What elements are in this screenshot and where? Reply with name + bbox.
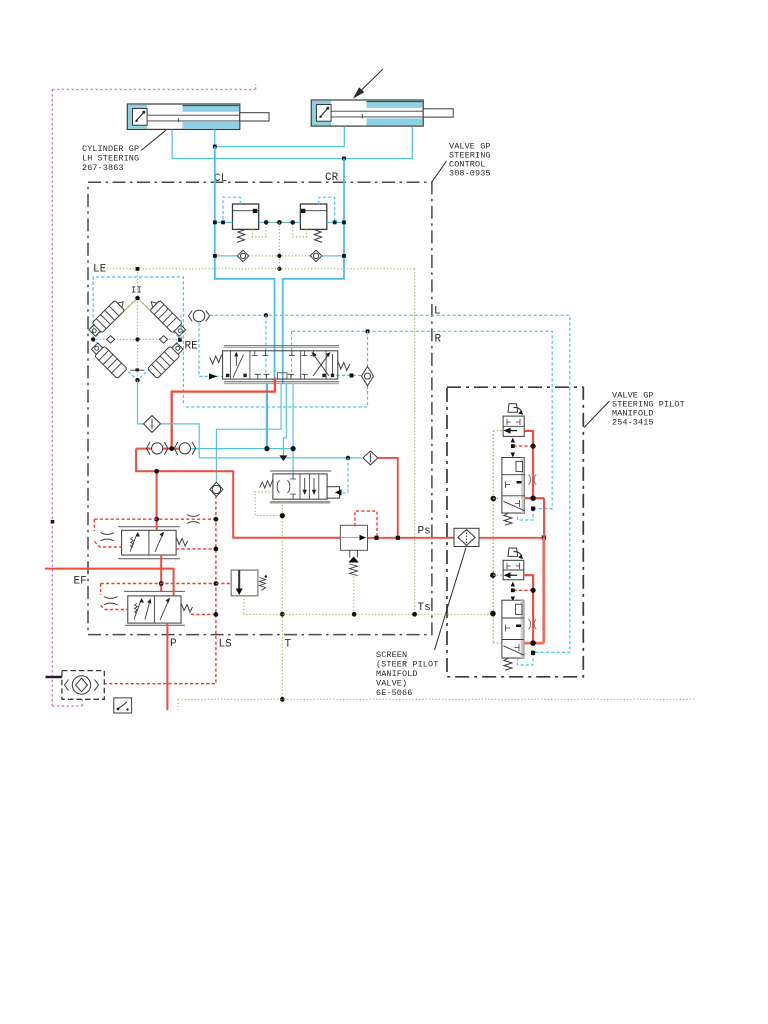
wire green Ts trunk — [243, 613, 493, 615]
wire green stub to upper solenoid — [493, 430, 503, 432]
wire green diagonals to top node — [115, 298, 160, 320]
wire cyan from cluster bottom to trunk2 — [138, 380, 200, 458]
svg-text:254-3415: 254-3415 — [612, 418, 654, 428]
op main control valve spool — [223, 346, 339, 384]
wire cyan dashed R to upper block bottom — [518, 509, 534, 520]
check valve mini diamond left on green — [107, 336, 115, 343]
node junction dot on magenta line — [51, 520, 55, 524]
op pilot supply solenoid valve — [340, 525, 367, 575]
node cluster junction dots — [91, 267, 182, 382]
cylinder LH steering (left) — [127, 104, 269, 129]
spring below lower block — [504, 658, 512, 670]
wire red dashed EF lower spring side — [191, 613, 216, 615]
solenoid valve upper-right of cluster — [146, 297, 187, 338]
wire red Ps feed elbow — [378, 458, 398, 538]
box VALVE GP STEERING PILOT MANIFOLD dash-dot border — [447, 387, 583, 677]
wire relief row cyan segments — [215, 221, 344, 223]
svg-text:LE: LE — [93, 264, 107, 276]
svg-text:SCREEN: SCREEN — [376, 650, 407, 660]
wire magenta pilot drain dashed left border — [52, 84, 255, 706]
svg-text:(STEER PILOT: (STEER PILOT — [376, 660, 438, 670]
node red out junction lower — [530, 640, 536, 646]
wire red main supply from valve bottom — [172, 378, 275, 449]
spring below upper block — [504, 513, 512, 525]
svg-text:Ps: Ps — [418, 526, 431, 538]
wire dashed arrows upper link — [511, 438, 515, 458]
wire red dashed upper link — [514, 445, 534, 447]
wire dashed cyan cluster diamond — [93, 298, 181, 380]
svg-text:CL: CL — [214, 173, 227, 185]
wire trunk1 red left section with circle checks — [191, 448, 294, 450]
wire red dashed EF lower pilot — [101, 584, 216, 610]
node green junction upper — [491, 496, 497, 502]
valve shuttle resolver circle L — [189, 310, 210, 322]
check valve diamond on Ps feed — [363, 451, 378, 465]
wire green pilot manifold vertical — [492, 431, 494, 643]
wire green vertical right drop to Ts — [414, 269, 416, 615]
pump priority valve bottom left — [46, 671, 105, 700]
wire trunk2 cyan to check to Ps — [199, 457, 362, 459]
wire dashed stub valve right pilot port to check — [336, 374, 361, 376]
wire CR trunk down to main valve — [283, 159, 344, 384]
wire green stub upper block — [493, 498, 502, 500]
solenoid valve lower-right of cluster — [134, 335, 185, 386]
check valve diamond on cluster drain — [144, 416, 161, 433]
filter screen on Ps — [454, 528, 479, 546]
wire green T trunk vertical — [281, 502, 283, 700]
wire green from damping valve to Ts — [243, 596, 245, 615]
svg-text:RE: RE — [185, 341, 199, 353]
op EF bypass valve lower — [124, 591, 185, 625]
node square on valve right stub — [350, 374, 354, 378]
wire red dashed lower link — [514, 589, 534, 591]
arrow on left pilot port — [209, 373, 218, 379]
svg-text:CYLINDER GP: CYLINDER GP — [82, 144, 139, 154]
wire green cluster horizontal — [93, 338, 181, 340]
wire L pilot drop to valve end — [265, 315, 267, 377]
node square L link — [531, 651, 535, 655]
node Ps junction squares — [374, 536, 546, 540]
wire green trunk LE horizontal — [93, 268, 414, 270]
box VALVE GP STEERING CONTROL dash-dot border — [88, 182, 432, 634]
label SCREEN (STEER PILOT MANIFOLD VALVE) 6E-5066 with leader — [376, 548, 466, 699]
svg-text:LH STEERING: LH STEERING — [82, 154, 139, 164]
label VALVE GP STEERING PILOT MANIFOLD 254-3415 with leader — [584, 391, 685, 428]
node red junction dots EF — [154, 469, 163, 586]
wire cyan dashed from reducing valve pilot to trunk2 — [342, 458, 348, 493]
spring right of main valve — [338, 361, 350, 371]
switch box symbol bottom — [114, 698, 132, 713]
wire RE dashed riser to shuttle — [180, 315, 182, 339]
svg-text:Ts: Ts — [418, 602, 431, 614]
wire green reducing valve drain L — [255, 492, 282, 516]
node red junction upper — [531, 444, 536, 449]
svg-text:6E-5066: 6E-5066 — [376, 688, 412, 698]
leader arrow to right cylinder — [354, 69, 383, 97]
node green junction lower block — [490, 611, 496, 617]
svg-text:MANIFOLD: MANIFOLD — [376, 669, 418, 679]
check valve diamond left on makeup row — [237, 250, 249, 261]
wire red lower block out elbow from riser — [524, 537, 544, 643]
box dashed cyan around pilot cluster — [93, 277, 183, 406]
check valve diamond on R riser — [362, 367, 374, 386]
wire red dashed EF upper spring side — [176, 548, 216, 550]
svg-text:T: T — [285, 639, 292, 651]
orifice to EF upper valve left — [101, 533, 115, 542]
wire thick cyan CL below valve to trunk — [266, 384, 268, 449]
wire red upper solenoid to riser — [524, 431, 533, 498]
node L line junction — [264, 313, 268, 317]
op pressure reducing valve — [260, 471, 342, 504]
svg-text:VALVE): VALVE) — [376, 679, 407, 689]
wire green solenoid drain to Ts — [353, 577, 355, 615]
wire red P line from valve to bottom — [166, 623, 168, 710]
node square R link — [531, 507, 535, 511]
pilot manifold lower proportional valve — [503, 548, 524, 580]
orifice to EF lower valve left — [104, 597, 118, 606]
spring left of main valve — [210, 355, 222, 365]
svg-text:308-0935: 308-0935 — [449, 169, 491, 179]
label VALVE GP STEERING CONTROL 308-0935 with leader — [432, 142, 491, 183]
wire green stub lower block — [493, 642, 502, 644]
wire cyan dashed L to lower block bottom — [518, 653, 534, 665]
wire makeup check row — [215, 255, 344, 257]
valve relief/makeup right CR — [300, 204, 326, 242]
wire red EF inlet line — [45, 569, 174, 596]
node green junctions — [280, 513, 285, 702]
wire red upper block out — [525, 498, 545, 537]
op LS damping valve — [231, 570, 267, 596]
node squares check row — [213, 254, 346, 271]
pilot manifold upper proportional valve — [503, 404, 524, 437]
solenoid valve upper-left of cluster — [87, 297, 128, 338]
wire red dashed into damping valve — [216, 583, 232, 585]
wire cyan valve port jog to trunk2 — [283, 384, 286, 458]
wire pilot dashed cyan to left relief — [223, 197, 240, 222]
spring right of EF lower valve — [181, 603, 193, 612]
wire red Ps line through screen — [368, 537, 544, 539]
wire pilot dashed cyan to right relief — [319, 197, 335, 222]
wire green loops under relief valves — [253, 222, 307, 237]
check valve mini diamond right on green — [160, 336, 168, 343]
svg-text:267-3863: 267-3863 — [82, 163, 124, 173]
op pilot reducing valve upper main block — [502, 458, 536, 514]
spring right of EF upper valve — [176, 537, 188, 546]
check valve circle left on red — [147, 442, 168, 455]
wire green stub lower solenoid — [493, 574, 503, 576]
wire CL trunk down to main valve — [215, 147, 275, 384]
node R line junction square — [366, 329, 370, 333]
wire red dashed LS vertical chain — [104, 496, 216, 684]
wire red dashed solenoid pilot loop — [355, 511, 377, 536]
svg-text:EF: EF — [74, 576, 87, 588]
op EF relief valve upper — [118, 527, 180, 559]
wire red lower solenoid to riser — [524, 575, 533, 643]
svg-text:LS: LS — [219, 639, 233, 651]
wire green riser between rows — [278, 222, 280, 268]
wire dashed arrows lower link — [511, 582, 515, 602]
node junction CR — [342, 157, 346, 161]
svg-text:P: P — [170, 638, 177, 650]
op pilot reducing valve lower main block — [502, 600, 536, 658]
svg-text:II: II — [131, 286, 142, 296]
wire R riser through check to cluster loop — [183, 331, 367, 407]
node squares relief row — [213, 220, 346, 225]
orifice on LS dashed link — [187, 515, 199, 524]
node red out junction — [530, 495, 536, 501]
wire red through EF upper valve — [157, 471, 162, 591]
wire green cluster vertical — [137, 269, 139, 380]
node red junction lower — [531, 588, 536, 593]
node trunk1 junctions — [169, 446, 295, 451]
svg-text:R: R — [435, 334, 442, 346]
cylinder RH steering (right) — [311, 100, 453, 126]
node trunk2 arrow junction — [279, 455, 287, 461]
check valve circle on LS tap — [210, 482, 223, 496]
wire red dashed EF upper pilot — [94, 519, 215, 547]
solenoid valve lower-left of cluster — [90, 335, 141, 386]
valve relief/makeup left CL — [233, 204, 259, 242]
wire L dashed line to pilot manifold — [210, 315, 570, 652]
wire CL net: head-end left cylinder to right cylinder crossover — [215, 126, 344, 146]
wire R dashed line to pilot manifold — [292, 331, 553, 508]
wire cyan LS tap from valve down and left — [216, 384, 281, 484]
check valve diamond right on makeup row — [310, 250, 322, 261]
wire R pilot drop to valve end — [291, 331, 293, 377]
wire green bottom trunk — [178, 699, 695, 710]
wire CR net: rod-end left cylinder to right cylinder rod end — [172, 126, 412, 158]
svg-text:CR: CR — [325, 172, 339, 184]
wire cyan valve port to reducing valve — [292, 384, 294, 479]
node junction CL — [213, 145, 217, 149]
label CYLINDER GP LH STEERING 267-3863 with leader — [82, 130, 166, 173]
node LS junction dots — [214, 517, 219, 617]
node green junction lower solenoid — [490, 572, 496, 578]
wire shuttle drop dashed to main valve left pilot port — [199, 323, 223, 377]
check valve circle right on red — [174, 442, 195, 455]
node Ts junction dots — [352, 612, 417, 617]
